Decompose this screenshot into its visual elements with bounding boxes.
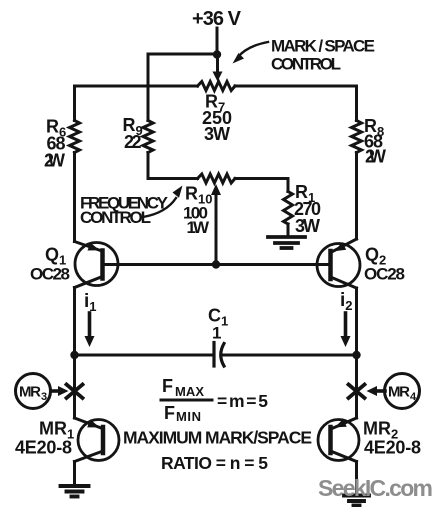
transistor Q1 — [75, 242, 119, 288]
svg-text:MR: MR — [388, 384, 410, 401]
MAXIMUM MARK/SPACE label — [123, 428, 312, 474]
junction dot node B — [352, 351, 360, 359]
R6 label — [44, 117, 66, 171]
svg-text:i1: i1 — [84, 291, 97, 314]
potentiometer R7 — [198, 82, 236, 91]
watermark — [318, 475, 433, 501]
svg-text:CONTROL: CONTROL — [80, 208, 151, 227]
arrow MARK/SPACE control pointer — [233, 42, 269, 64]
svg-text:2W: 2W — [44, 151, 65, 171]
resistor R8 — [352, 86, 362, 153]
wire R10 wiper to base rail — [211, 184, 221, 265]
i1 current arrow — [84, 291, 97, 347]
wire to R10 left — [148, 177, 198, 180]
i2 current arrow — [340, 290, 353, 347]
arrow FREQUENCY control pointer — [143, 186, 183, 218]
R7 label — [202, 92, 232, 145]
wire node B down to MR2 — [355, 355, 358, 418]
R8 label — [364, 116, 386, 167]
junction dot node A — [70, 351, 78, 359]
node +36V supply lead — [216, 28, 219, 55]
potentiometer R10 — [198, 174, 236, 183]
+36 V label — [192, 8, 242, 30]
svg-text:4E20-8: 4E20-8 — [364, 438, 421, 458]
diode point MR3 X mark — [67, 385, 83, 399]
wire R6 bottom to Q1 emitter — [73, 153, 76, 242]
R9 label — [123, 115, 143, 152]
resistor R6 — [70, 86, 80, 153]
svg-text:MAXIMUM MARK/SPACE: MAXIMUM MARK/SPACE — [123, 428, 312, 448]
svg-text:3W: 3W — [204, 124, 230, 144]
wire R8 bottom to Q2 emitter — [355, 153, 358, 240]
svg-text:2W: 2W — [365, 147, 386, 167]
ground under R1 — [268, 237, 305, 248]
svg-text:MAX: MAX — [175, 384, 204, 399]
MR1 label — [15, 419, 74, 458]
wire top rail left — [75, 85, 198, 88]
arrow MR3 pointer — [51, 386, 69, 396]
junction dot at supply node — [213, 50, 221, 58]
svg-text:1: 1 — [212, 324, 221, 343]
ground under MR2 — [344, 496, 369, 506]
svg-text:CONTROL: CONTROL — [271, 55, 341, 74]
svg-text:MR: MR — [19, 384, 41, 401]
C1 label — [208, 306, 228, 343]
rectifier MR1 — [75, 418, 120, 462]
R10 label — [183, 184, 212, 238]
svg-text:3 W: 3 W — [295, 216, 320, 236]
capacitor C1 — [214, 343, 224, 367]
svg-text:MIN: MIN — [176, 409, 201, 424]
MARK/SPACE CONTROL label — [271, 37, 375, 74]
resistor R1 — [284, 192, 293, 237]
wire Q2 collector down — [355, 288, 358, 355]
wire R7 wiper from supply node — [213, 55, 223, 82]
svg-text:OC28: OC28 — [364, 265, 405, 284]
wire node A down to MR1 — [73, 355, 76, 418]
wire R9 bottom to R10 — [147, 153, 150, 179]
wire C1 to node B — [222, 354, 357, 357]
FREQUENCY CONTROL label — [80, 194, 169, 228]
MR2 label — [363, 419, 421, 458]
wire R10 right to R1 top — [235, 179, 288, 192]
wire base rail Q1 to Q2 — [103, 263, 331, 266]
svg-text:3: 3 — [41, 391, 47, 403]
transistor Q2 — [317, 239, 360, 288]
svg-text:i2: i2 — [340, 290, 353, 313]
wire node A to C1 — [75, 354, 215, 357]
svg-text:RATIO = n = 5: RATIO = n = 5 — [161, 453, 268, 473]
svg-text:= m = 5: = m = 5 — [217, 391, 268, 411]
svg-text:4E20-8: 4E20-8 — [15, 438, 72, 458]
fraction bar — [161, 399, 212, 402]
R1 label — [294, 182, 321, 236]
diode point MR4 X mark — [349, 385, 365, 399]
svg-text:MARK / SPACE: MARK / SPACE — [271, 37, 375, 56]
Q2 label — [364, 245, 405, 284]
svg-text:OC28: OC28 — [30, 265, 70, 284]
ground under MR1 — [61, 486, 89, 497]
svg-text:+36 V: +36 V — [192, 8, 242, 30]
MR3 callout circle — [16, 374, 51, 409]
svg-text:F: F — [164, 403, 175, 423]
svg-text:1W: 1W — [187, 218, 210, 237]
wire MR1 to ground — [73, 462, 76, 486]
junction dot base rail — [212, 260, 220, 268]
rectifier MR2 — [318, 418, 359, 462]
svg-text:SeekIC.com: SeekIC.com — [318, 475, 433, 501]
wire Q1 collector down — [73, 288, 76, 356]
svg-text:22: 22 — [124, 132, 142, 152]
wire MR2 to ground — [355, 462, 358, 495]
wire supply node to R9 top — [148, 54, 217, 121]
wire top rail right — [235, 85, 357, 88]
Fmax/Fmin formula — [162, 376, 268, 424]
arrow MR4 pointer — [367, 386, 386, 396]
svg-text:4: 4 — [410, 391, 417, 403]
Q1 label — [30, 245, 70, 284]
MR4 callout circle — [385, 374, 420, 409]
resistor R9 — [143, 121, 153, 153]
svg-text:F: F — [162, 376, 173, 396]
